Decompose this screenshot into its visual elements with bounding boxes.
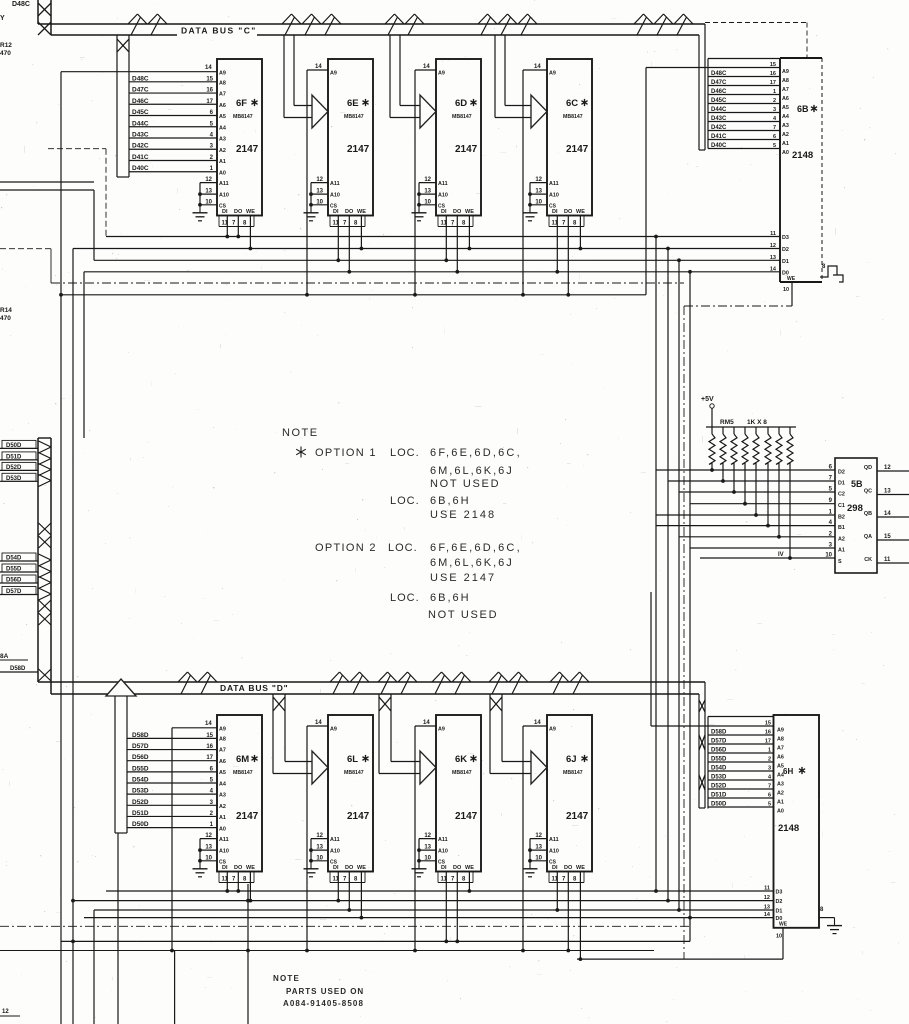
svg-text:D42C: D42C [132, 143, 149, 150]
svg-text:A11: A11 [549, 837, 559, 843]
svg-text:D54D: D54D [6, 556, 22, 562]
svg-text:A9: A9 [777, 728, 784, 734]
svg-text:D54D: D54D [132, 777, 149, 784]
bus D left hatches [39, 441, 52, 447]
svg-text:A3: A3 [782, 123, 789, 129]
svg-text:A3: A3 [219, 793, 226, 799]
svg-text:D43C: D43C [132, 132, 149, 139]
svg-text:DO: DO [453, 865, 462, 871]
bus entry arrow into chip at x547 [494, 35, 496, 118]
svg-text:A1: A1 [777, 800, 784, 806]
svg-text:A9: A9 [782, 69, 789, 75]
svg-text:D1: D1 [782, 259, 789, 265]
svg-text:WE: WE [779, 922, 788, 928]
address label ladder for 6M (D50D-D58D) [127, 737, 217, 739]
chip 5B output pin wires QD QC QB QA CK [877, 470, 909, 472]
RAM chip 6J (2147/MB8147) [523, 715, 593, 961]
svg-text:2: 2 [773, 98, 776, 104]
node A9 feed wires for 6E 6D 6C [307, 69, 328, 71]
svg-text:6K: 6K [455, 754, 467, 765]
svg-text:12: 12 [316, 177, 323, 183]
svg-text:MB8147: MB8147 [233, 114, 253, 120]
svg-text:D57D: D57D [6, 589, 22, 595]
node A9 feed wires for 6L 6K 6J [307, 725, 328, 727]
svg-text:DATA BUS "D": DATA BUS "D" [220, 683, 289, 693]
svg-text:D41C: D41C [711, 134, 727, 140]
svg-text:6M,6L,6K,6J: 6M,6L,6K,6J [430, 557, 514, 569]
svg-text:D54D: D54D [711, 766, 727, 772]
svg-text:A9: A9 [219, 71, 226, 77]
svg-text:LOC.: LOC. [388, 542, 418, 554]
svg-text:12: 12 [884, 465, 891, 471]
resistor R8 of RM5 [787, 427, 793, 560]
wire A9 feed for 6H [651, 725, 708, 727]
svg-text:12: 12 [2, 1009, 9, 1015]
svg-text:USE 2147: USE 2147 [430, 572, 496, 584]
svg-text:D2: D2 [838, 470, 845, 476]
svg-text:A3: A3 [777, 782, 784, 788]
wire vertical D0 x692 [689, 272, 691, 942]
svg-text:D3: D3 [776, 890, 783, 896]
svg-text:D50D: D50D [6, 443, 22, 449]
RAM chip 6H (2148) [774, 715, 820, 928]
bus D left corner hatch [39, 669, 52, 681]
svg-text:6: 6 [768, 793, 771, 799]
svg-text:B2: B2 [838, 515, 845, 521]
svg-text:14: 14 [423, 720, 430, 726]
svg-text:6B: 6B [797, 104, 809, 114]
svg-text:2147: 2147 [566, 144, 589, 155]
svg-text:6B,6H: 6B,6H [430, 495, 471, 507]
svg-text:1: 1 [768, 748, 771, 754]
svg-text:2147: 2147 [455, 144, 478, 155]
svg-text:10: 10 [205, 199, 212, 205]
svg-text:A10: A10 [330, 193, 340, 199]
wire 6B A9 vertical riser x646 [645, 68, 647, 295]
svg-text:A2: A2 [838, 536, 845, 542]
svg-text:D40C: D40C [132, 165, 149, 172]
svg-text:WE: WE [357, 209, 366, 215]
svg-text:2147: 2147 [347, 811, 370, 822]
svg-text:PARTS USED ON: PARTS USED ON [286, 987, 364, 996]
svg-text:17: 17 [206, 755, 213, 761]
svg-text:13: 13 [205, 189, 212, 195]
svg-text:A5: A5 [777, 764, 784, 770]
wire vertical D1 x680 [678, 260, 680, 910]
svg-text:14: 14 [205, 721, 212, 727]
svg-text:298: 298 [847, 503, 863, 514]
wire vertical D3 x658 [655, 237, 657, 892]
svg-text:A4: A4 [219, 125, 226, 131]
wire stub pair at left edge y186 [0, 181, 94, 183]
address label ladder for 6B (D40C-D48C) [707, 59, 709, 149]
svg-text:D51D: D51D [711, 793, 727, 799]
svg-text:D47C: D47C [132, 87, 149, 94]
wire vertical x51 step down [50, 249, 52, 283]
svg-text:6H: 6H [783, 767, 793, 776]
wire vertical x174 bottom box [174, 951, 176, 1024]
svg-text:D53D: D53D [6, 476, 22, 482]
svg-text:D52D: D52D [6, 465, 22, 471]
wire vertical x94 from stub to D1 line [93, 190, 95, 260]
svg-text:D58D: D58D [711, 730, 727, 736]
RAM chip 6F (2147/MB8147) [193, 59, 263, 250]
svg-text:A9: A9 [438, 727, 445, 733]
svg-text:5: 5 [773, 143, 776, 149]
svg-text:WE: WE [576, 209, 585, 215]
svg-text:DATA BUS "C": DATA BUS "C" [181, 26, 257, 36]
svg-text:13: 13 [424, 845, 431, 851]
svg-text:3: 3 [773, 107, 776, 113]
svg-text:D57D: D57D [132, 743, 149, 750]
svg-text:DO: DO [453, 209, 462, 215]
svg-text:A10: A10 [330, 849, 340, 855]
svg-text:12: 12 [316, 833, 323, 839]
svg-text:DI: DI [222, 209, 228, 215]
svg-text:14: 14 [205, 65, 212, 71]
svg-text:10: 10 [424, 199, 431, 205]
svg-text:17: 17 [770, 80, 776, 86]
resistor R5 of RM5 [753, 427, 759, 517]
svg-text:470: 470 [0, 50, 11, 57]
svg-text:8A: 8A [0, 653, 9, 660]
svg-text:D50D: D50D [711, 802, 727, 808]
svg-text:A2: A2 [219, 804, 226, 810]
resistor R4 of RM5 [742, 427, 748, 506]
svg-text:DO: DO [564, 865, 573, 871]
bus C hatch marks [128, 14, 138, 24]
RAM chip 6K (2147/MB8147) [412, 715, 482, 943]
svg-text:6M: 6M [236, 754, 249, 765]
svg-text:6: 6 [773, 134, 776, 140]
svg-text:12: 12 [770, 243, 776, 249]
svg-text:D48C: D48C [12, 1, 30, 8]
address label ladder for 6F (D40C-D48C) [129, 81, 217, 83]
svg-text:DO: DO [345, 865, 354, 871]
svg-text:LOC.: LOC. [390, 447, 420, 459]
svg-text:1K X 8: 1K X 8 [747, 419, 767, 426]
wire dashed step from left into D3 line [48, 148, 106, 150]
bus D right corner drop to 6H address ladder [704, 682, 706, 808]
svg-text:A7: A7 [219, 92, 226, 98]
svg-text:6E: 6E [347, 98, 359, 109]
svg-text:MB8147: MB8147 [452, 770, 472, 776]
svg-text:A6: A6 [777, 755, 784, 761]
svg-text:D53D: D53D [132, 788, 149, 795]
svg-text:D47C: D47C [711, 80, 727, 86]
svg-text:16: 16 [206, 744, 213, 750]
svg-text:A11: A11 [438, 837, 448, 843]
svg-text:LOC.: LOC. [390, 592, 420, 604]
bus entry arrow into chip at x436 [389, 35, 391, 118]
svg-text:13: 13 [884, 489, 891, 495]
svg-text:A1: A1 [219, 815, 226, 821]
wire D2 line below bottom chips [73, 900, 774, 902]
svg-text:15: 15 [884, 534, 891, 540]
svg-text:D3: D3 [782, 235, 789, 241]
svg-text:WE: WE [787, 276, 796, 282]
svg-text:A8: A8 [219, 81, 226, 87]
svg-text:A9: A9 [330, 727, 337, 733]
svg-text:12: 12 [205, 177, 212, 183]
svg-text:A5: A5 [782, 105, 789, 111]
svg-text:A0: A0 [777, 809, 784, 815]
svg-text:S: S [838, 559, 842, 565]
svg-text:16: 16 [206, 88, 213, 94]
svg-text:A11: A11 [549, 181, 559, 187]
svg-text:RM5: RM5 [720, 419, 734, 426]
svg-text:D1: D1 [776, 909, 783, 915]
svg-text:13: 13 [770, 255, 776, 261]
svg-text:14: 14 [770, 266, 777, 272]
wire dash-dot control line y283 [51, 282, 684, 284]
svg-text:2: 2 [768, 757, 771, 763]
svg-text:12: 12 [424, 833, 431, 839]
svg-text:10: 10 [205, 855, 212, 861]
wire vertical x118 bottom box [117, 833, 119, 1024]
svg-text:A4: A4 [219, 781, 226, 787]
svg-text:A5: A5 [219, 770, 226, 776]
svg-text:A11: A11 [438, 181, 448, 187]
svg-text:10: 10 [316, 199, 323, 205]
svg-text:MB8147: MB8147 [344, 770, 364, 776]
svg-text:14: 14 [315, 720, 322, 726]
note text parts used on A084-91405-8508 [273, 974, 364, 1008]
svg-text:6C: 6C [566, 98, 578, 109]
svg-text:B1: B1 [838, 525, 845, 531]
svg-text:DI: DI [333, 209, 339, 215]
svg-text:14: 14 [534, 720, 541, 726]
RAM chip 6L (2147/MB8147) [304, 715, 374, 919]
svg-text:A1: A1 [219, 159, 226, 165]
svg-text:D40C: D40C [711, 143, 727, 149]
svg-text:MB8147: MB8147 [344, 114, 364, 120]
svg-text:15: 15 [206, 76, 213, 82]
svg-text:D43C: D43C [711, 116, 727, 122]
svg-text:12: 12 [535, 833, 542, 839]
svg-text:D50D: D50D [132, 821, 149, 828]
svg-text:2147: 2147 [566, 811, 589, 822]
svg-text:A4: A4 [777, 773, 784, 779]
svg-text:6J: 6J [566, 754, 577, 765]
svg-text:LOC.: LOC. [390, 495, 420, 507]
svg-text:13: 13 [535, 845, 542, 851]
wire D3 line below bottom chips [106, 890, 774, 892]
svg-text:D44C: D44C [711, 107, 727, 113]
svg-text:7: 7 [773, 125, 776, 131]
svg-text:WE: WE [465, 209, 474, 215]
svg-text:DI: DI [441, 865, 447, 871]
svg-text:QC: QC [864, 489, 872, 495]
svg-text:11: 11 [764, 886, 770, 892]
svg-text:Y: Y [0, 15, 5, 22]
svg-text:11: 11 [770, 231, 776, 237]
bus DATA BUS C horizontal pair [38, 23, 705, 25]
svg-text:A2: A2 [782, 132, 789, 138]
svg-text:12: 12 [764, 895, 770, 901]
svg-text:A6: A6 [219, 103, 226, 109]
svg-text:A084-91405-8508: A084-91405-8508 [283, 999, 364, 1008]
svg-text:D55D: D55D [6, 567, 22, 573]
svg-text:14: 14 [534, 64, 541, 70]
svg-text:IV: IV [778, 552, 784, 558]
svg-text:D55D: D55D [711, 757, 727, 763]
svg-text:A2: A2 [777, 791, 784, 797]
svg-text:A9: A9 [330, 71, 337, 77]
wire D3 line below top chips [106, 236, 780, 238]
svg-text:6B,6H: 6B,6H [430, 592, 471, 604]
svg-text:A7: A7 [777, 746, 784, 752]
svg-text:D56D: D56D [132, 754, 149, 761]
svg-text:6D: 6D [455, 98, 467, 109]
RAM chip 6D (2147/MB8147) [412, 59, 482, 274]
RAM chip 6C (2147/MB8147) [523, 59, 593, 297]
svg-text:DI: DI [552, 209, 558, 215]
svg-text:D2: D2 [776, 899, 783, 905]
svg-text:A9: A9 [549, 727, 556, 733]
multiplexer chip 5B (74298) [835, 458, 877, 573]
resistor R6 of RM5 [765, 427, 771, 527]
svg-text:D42C: D42C [711, 125, 727, 131]
svg-text:A11: A11 [330, 181, 340, 187]
bus entry arrow into bottom chip at x328 [272, 694, 274, 774]
junction dots on bottom wire group [654, 889, 658, 893]
svg-text:1: 1 [773, 89, 776, 95]
wire D2 line below top chips [73, 248, 780, 250]
svg-text:D41C: D41C [132, 154, 149, 161]
svg-text:D46C: D46C [711, 89, 727, 95]
svg-text:5B: 5B [851, 479, 863, 489]
svg-text:470: 470 [0, 315, 11, 322]
svg-text:D45C: D45C [711, 98, 727, 104]
svg-text:D52D: D52D [711, 784, 727, 790]
svg-text:A8: A8 [777, 737, 784, 743]
svg-text:D55D: D55D [132, 765, 149, 772]
address label ladder for 6H (D50D-D58D) [707, 717, 709, 809]
signal labels D50D-D53D entering bus D [0, 447, 38, 449]
svg-text:16: 16 [770, 71, 776, 77]
svg-text:7: 7 [768, 784, 771, 790]
svg-text:C1: C1 [838, 503, 845, 509]
svg-text:D48C: D48C [711, 71, 727, 77]
svg-text:OPTION 2: OPTION 2 [315, 542, 377, 554]
svg-text:13: 13 [764, 905, 770, 911]
svg-text:13: 13 [535, 189, 542, 195]
svg-text:D44C: D44C [132, 120, 149, 127]
svg-text:D1: D1 [838, 481, 845, 487]
svg-text:13: 13 [424, 189, 431, 195]
svg-text:MB8147: MB8147 [563, 770, 583, 776]
svg-text:NOTE: NOTE [273, 974, 300, 983]
svg-text:A4: A4 [782, 114, 789, 120]
note text block about OPTION 1 and OPTION 2 [282, 427, 522, 621]
svg-text:WE: WE [576, 865, 585, 871]
svg-text:15: 15 [770, 62, 776, 68]
svg-text:6L: 6L [347, 754, 358, 765]
svg-text:2148: 2148 [778, 823, 799, 834]
svg-text:A10: A10 [438, 849, 448, 855]
svg-text:D51D: D51D [6, 454, 22, 460]
wire D1 line below bottom chips [94, 909, 774, 911]
svg-text:14: 14 [423, 64, 430, 70]
bus entry arrow into chip at x328 [283, 35, 285, 118]
svg-text:17: 17 [206, 99, 213, 105]
bus entry arrow into bottom chip at x436 [378, 694, 380, 774]
svg-text:DI: DI [333, 865, 339, 871]
svg-text:NOT USED: NOT USED [428, 609, 498, 621]
svg-text:NOTE: NOTE [282, 427, 319, 439]
svg-text:DI: DI [222, 865, 228, 871]
RAM chip 6M (2147/MB8147) [193, 715, 263, 902]
svg-text:12: 12 [535, 177, 542, 183]
svg-text:14: 14 [764, 912, 771, 918]
svg-text:A7: A7 [219, 748, 226, 754]
svg-text:R12: R12 [0, 42, 12, 49]
svg-text:A10: A10 [438, 193, 448, 199]
svg-text:QB: QB [864, 511, 872, 517]
svg-text:6F: 6F [236, 98, 247, 109]
svg-text:13: 13 [316, 845, 323, 851]
svg-text:D58D: D58D [10, 666, 26, 672]
wire D1 line below top chips [94, 259, 780, 261]
svg-text:A9: A9 [438, 71, 445, 77]
svg-text:A2: A2 [219, 148, 226, 154]
RAM chip 6B (2148) [780, 58, 822, 282]
svg-text:15: 15 [765, 721, 771, 727]
svg-text:2147: 2147 [347, 144, 370, 155]
svg-text:D57D: D57D [711, 739, 727, 745]
svg-text:DO: DO [564, 209, 573, 215]
wire D0 line below top chips [84, 271, 780, 273]
node A9 feed wire for 6M [172, 727, 217, 729]
svg-text:DI: DI [552, 865, 558, 871]
svg-text:14: 14 [315, 64, 322, 70]
svg-text:A11: A11 [219, 837, 229, 843]
svg-text:13: 13 [205, 845, 212, 851]
svg-text:D46C: D46C [132, 98, 149, 105]
bus DATA BUS D horizontal pair [38, 681, 705, 683]
svg-text:10: 10 [783, 287, 789, 293]
svg-text:R14: R14 [0, 307, 12, 314]
svg-text:D51D: D51D [132, 810, 149, 817]
svg-text:3: 3 [768, 766, 771, 772]
wire A9 net line y950 [0, 950, 654, 952]
svg-text:A3: A3 [219, 137, 226, 143]
svg-text:2147: 2147 [236, 811, 259, 822]
svg-text:A6: A6 [219, 759, 226, 765]
junction dots on top wire group [654, 235, 658, 239]
svg-text:OPTION 1: OPTION 1 [315, 447, 377, 459]
bus entry arrow into bottom chip at x547 [489, 694, 491, 774]
svg-text:A11: A11 [330, 837, 340, 843]
svg-text:6F,6E,6D,6C,: 6F,6E,6D,6C, [430, 447, 522, 459]
svg-text:2147: 2147 [236, 144, 259, 155]
svg-text:A10: A10 [549, 193, 559, 199]
svg-text:2148: 2148 [792, 150, 813, 161]
svg-text:DO: DO [234, 209, 243, 215]
svg-text:A0: A0 [782, 150, 789, 156]
svg-text:A5: A5 [219, 114, 226, 120]
svg-text:D2: D2 [782, 247, 789, 253]
svg-text:10: 10 [535, 855, 542, 861]
svg-text:A10: A10 [549, 849, 559, 855]
svg-text:2147: 2147 [455, 811, 478, 822]
svg-text:A11: A11 [219, 181, 229, 187]
bus label DATA BUS C [177, 25, 257, 36]
svg-text:DO: DO [345, 209, 354, 215]
svg-text:D56D: D56D [711, 748, 727, 754]
svg-text:D56D: D56D [6, 578, 22, 584]
